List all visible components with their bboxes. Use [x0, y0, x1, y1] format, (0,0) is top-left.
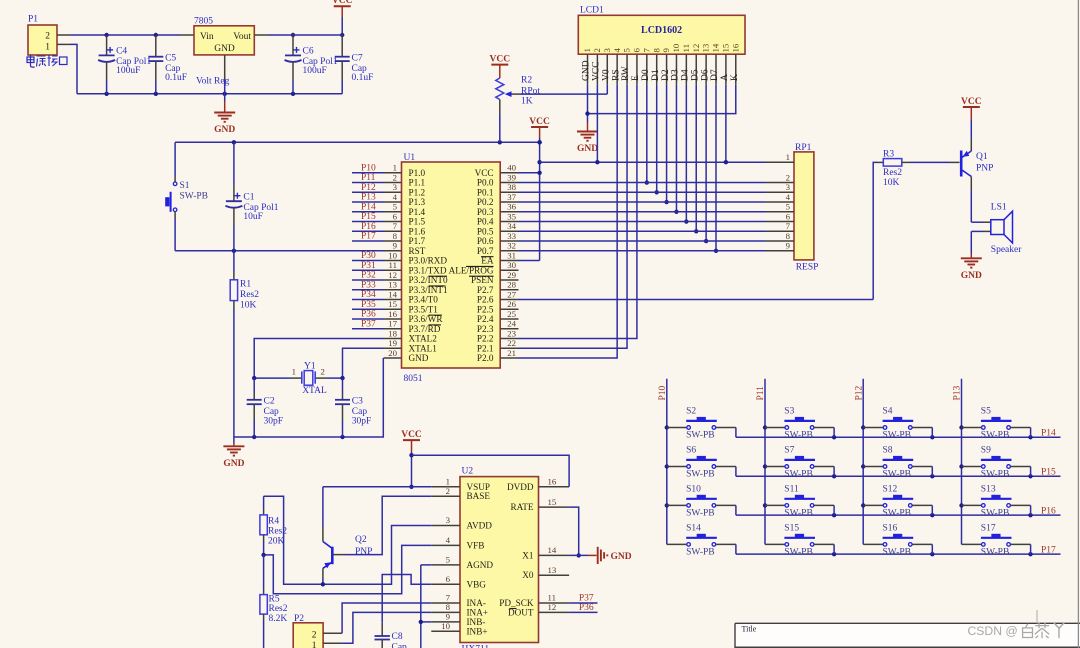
svg-text:Speaker: Speaker — [991, 245, 1022, 255]
svg-text:P30: P30 — [361, 251, 376, 261]
svg-text:1: 1 — [292, 366, 296, 376]
svg-text:18: 18 — [388, 328, 397, 338]
svg-text:9: 9 — [393, 241, 398, 251]
wire LCD VCC + A to VCC rail — [597, 84, 726, 162]
keypad column junction dots — [665, 425, 964, 507]
svg-text:P0.6: P0.6 — [477, 236, 494, 246]
net label P37 on PD_SCK — [569, 594, 597, 604]
wire VCC rail to RP1 pin1 — [540, 160, 766, 164]
wire Vout to C6/C7/VCC — [254, 34, 342, 36]
svg-text:10: 10 — [671, 43, 681, 52]
svg-text:P17: P17 — [1041, 545, 1056, 555]
svg-text:D0: D0 — [641, 69, 651, 81]
svg-text:SW-PB: SW-PB — [883, 547, 912, 557]
svg-text:X0: X0 — [522, 570, 534, 580]
svg-text:P33: P33 — [361, 280, 376, 290]
svg-text:P35: P35 — [361, 300, 376, 310]
U2 right pins stubs numbers names — [499, 477, 569, 618]
svg-text:13: 13 — [548, 565, 557, 575]
svg-text:27: 27 — [507, 289, 516, 299]
resistor network RP1 RESP — [794, 143, 818, 273]
wire VFB to R4/R5 junction — [261, 545, 431, 593]
svg-text:23: 23 — [507, 328, 516, 338]
svg-text:8051: 8051 — [404, 374, 423, 384]
svg-text:36: 36 — [507, 202, 516, 212]
capacitor C1 10uF — [225, 142, 278, 251]
svg-text:VCC: VCC — [529, 117, 550, 127]
switch S3 SW-PB — [765, 407, 834, 441]
svg-text:D4: D4 — [681, 69, 691, 81]
svg-text:P36: P36 — [361, 310, 376, 320]
svg-text:K: K — [730, 74, 740, 81]
svg-text:P1.3: P1.3 — [409, 197, 426, 207]
svg-text:17: 17 — [388, 319, 397, 329]
svg-text:INA+: INA+ — [467, 607, 489, 617]
svg-text:9: 9 — [786, 241, 791, 251]
capacitor C4 100uF — [98, 35, 151, 94]
svg-text:40: 40 — [507, 163, 516, 173]
svg-text:RST: RST — [409, 246, 426, 256]
crystal Y1 XTAL — [254, 362, 342, 396]
svg-text:8: 8 — [786, 231, 791, 241]
svg-text:P3.4/T0: P3.4/T0 — [409, 295, 439, 305]
svg-text:VCC: VCC — [401, 430, 422, 440]
capacitor C8 Cap — [375, 623, 408, 648]
switch S15 SW-PB — [765, 523, 834, 557]
svg-text:5: 5 — [393, 202, 398, 212]
svg-text:6: 6 — [632, 48, 642, 53]
svg-text:R4: R4 — [268, 517, 279, 527]
svg-text:10K: 10K — [240, 301, 257, 311]
ground symbol under crystal — [223, 437, 244, 469]
svg-text:2: 2 — [321, 366, 325, 376]
svg-text:RESP: RESP — [796, 263, 819, 273]
transistor Q1 PNP — [961, 120, 993, 222]
svg-text:24: 24 — [507, 319, 516, 329]
net labels P10-P13 keypad columns — [658, 385, 963, 400]
net labels P10-P17 on U1 pins 1-8 — [352, 163, 384, 241]
svg-text:4: 4 — [393, 192, 398, 202]
wire XTAL2 (pin18) to Y1 — [254, 339, 383, 379]
svg-text:SW-PB: SW-PB — [686, 547, 715, 557]
svg-text:Cap: Cap — [392, 643, 408, 648]
svg-text:S15: S15 — [784, 523, 799, 533]
svg-text:SW-PB: SW-PB — [784, 508, 813, 518]
svg-text:P11: P11 — [361, 173, 376, 183]
svg-text:2: 2 — [45, 32, 50, 42]
svg-text:SW-PB: SW-PB — [686, 431, 715, 441]
svg-text:14: 14 — [548, 545, 557, 555]
resistor R4 Res2 20K — [260, 496, 287, 555]
U1 left pin names — [409, 168, 448, 363]
svg-text:P36: P36 — [579, 603, 594, 613]
svg-text:P2: P2 — [294, 614, 304, 624]
voltage regulator 7805 — [194, 17, 254, 87]
svg-text:Vin: Vin — [200, 32, 214, 42]
svg-text:LCD1602: LCD1602 — [641, 25, 682, 36]
wires P0 bus to RP1 — [519, 183, 766, 251]
svg-text:6: 6 — [393, 211, 398, 221]
svg-text:Res2: Res2 — [269, 604, 288, 614]
svg-text:SW-PB: SW-PB — [981, 547, 1010, 557]
switch S16 SW-PB — [863, 523, 932, 557]
svg-text:0.1uF: 0.1uF — [165, 73, 187, 83]
svg-text:VFB: VFB — [467, 540, 485, 550]
svg-text:9: 9 — [661, 48, 671, 53]
svg-text:SW-PB: SW-PB — [981, 508, 1010, 518]
svg-text:P2.0: P2.0 — [477, 353, 494, 363]
svg-text:6: 6 — [786, 211, 791, 221]
svg-text:S4: S4 — [883, 407, 893, 417]
svg-text:8.2K: 8.2K — [269, 614, 288, 624]
svg-text:S1: S1 — [180, 181, 190, 191]
svg-text:SW-PB: SW-PB — [686, 508, 715, 518]
svg-text:P2.6: P2.6 — [477, 295, 494, 305]
svg-text:35: 35 — [507, 211, 516, 221]
svg-text:7: 7 — [786, 221, 791, 231]
switch S10 SW-PB — [667, 484, 736, 518]
svg-text:4: 4 — [446, 535, 451, 545]
svg-text:D1: D1 — [651, 69, 661, 81]
wire GND (pin20) down to crystal ground rail — [234, 358, 383, 437]
svg-text:12: 12 — [388, 270, 397, 280]
svg-text:C2: C2 — [264, 397, 275, 407]
svg-text:P0.0: P0.0 — [477, 178, 494, 188]
svg-text:P12: P12 — [361, 183, 376, 193]
svg-text:AGND: AGND — [467, 560, 494, 570]
svg-text:15: 15 — [548, 497, 557, 507]
power symbol VCC at R2 — [490, 54, 511, 78]
LCD1 pin labels GND..K — [582, 60, 740, 81]
wire VSUP / Q2 collector / VCC — [323, 487, 431, 542]
svg-text:13: 13 — [701, 43, 711, 52]
svg-text:8: 8 — [393, 231, 398, 241]
svg-text:P0.5: P0.5 — [477, 226, 494, 236]
svg-text:P1.1: P1.1 — [409, 178, 426, 188]
power symbol VCC top — [332, 0, 353, 35]
svg-text:10: 10 — [441, 621, 450, 631]
wire XTAL1 (pin19) to Y1 — [343, 348, 384, 378]
svg-text:38: 38 — [507, 182, 516, 192]
svg-text:8: 8 — [651, 48, 661, 53]
svg-text:P14: P14 — [1041, 429, 1056, 439]
label 电源接口 (power port) — [27, 55, 67, 67]
svg-text:39: 39 — [507, 172, 516, 182]
ground symbol under LCD — [577, 122, 598, 154]
junction dots crystal — [252, 376, 345, 439]
svg-text:P1.2: P1.2 — [409, 187, 426, 197]
svg-text:P0.3: P0.3 — [477, 207, 494, 217]
switch S2 SW-PB — [667, 407, 736, 441]
svg-text:11: 11 — [681, 44, 691, 52]
svg-text:P14: P14 — [361, 202, 376, 212]
svg-text:P32: P32 — [361, 271, 376, 281]
LCD1 pin stubs and numbers 1-16 — [582, 43, 740, 84]
svg-text:Title: Title — [742, 624, 757, 633]
wire keypad row net P14 — [736, 429, 1061, 440]
svg-text:XTAL2: XTAL2 — [409, 334, 438, 344]
svg-text:31: 31 — [507, 250, 516, 260]
LCD connector LCD1 LCD1602 — [578, 6, 745, 55]
capacitor C3 30pF — [335, 378, 371, 437]
svg-text:22: 22 — [507, 338, 516, 348]
svg-text:R5: R5 — [269, 595, 280, 605]
wire VCC/EA vertical — [519, 138, 542, 261]
wire R2 wiper to LCD V0 — [519, 84, 607, 94]
svg-text:P10: P10 — [658, 385, 668, 400]
switch S5 SW-PB — [962, 407, 1031, 441]
svg-text:V0: V0 — [601, 69, 611, 81]
svg-text:GND: GND — [577, 144, 598, 154]
svg-text:100uF: 100uF — [116, 66, 140, 76]
svg-text:INB+: INB+ — [467, 626, 488, 636]
svg-text:D2: D2 — [661, 69, 671, 81]
svg-text:25: 25 — [507, 309, 516, 319]
svg-text:2: 2 — [592, 48, 602, 52]
wire LCD GND + K net — [585, 84, 735, 122]
svg-text:21: 21 — [507, 348, 516, 358]
connector P1 — [28, 15, 70, 56]
capacitor C6 100uF — [285, 35, 338, 94]
wire LCD E to P2.2 — [519, 84, 637, 338]
svg-text:CSDN @: CSDN @ — [968, 624, 1018, 638]
svg-text:3: 3 — [446, 515, 451, 525]
capacitor C5 0.1uF — [148, 35, 187, 94]
svg-text:20K: 20K — [268, 537, 285, 547]
svg-text:PNP: PNP — [976, 164, 993, 174]
wire LCD RS to P2.0 — [519, 84, 618, 358]
svg-text:12: 12 — [548, 602, 557, 612]
svg-text:32: 32 — [507, 241, 516, 251]
svg-text:C4: C4 — [116, 47, 127, 57]
switch S6 SW-PB — [667, 446, 736, 480]
svg-text:1: 1 — [786, 152, 790, 162]
svg-text:0.1uF: 0.1uF — [352, 73, 374, 83]
switch S7 SW-PB — [765, 446, 834, 480]
svg-text:P15: P15 — [361, 212, 376, 222]
svg-text:16: 16 — [388, 309, 397, 319]
wire VCC rail (reset top) — [175, 140, 542, 144]
svg-text:19: 19 — [388, 338, 397, 348]
svg-text:P2.3: P2.3 — [477, 324, 494, 334]
svg-text:P1.0: P1.0 — [409, 168, 426, 178]
svg-text:10: 10 — [388, 250, 397, 260]
svg-text:P13: P13 — [361, 193, 376, 203]
transistor Q2 PNP — [323, 535, 373, 584]
svg-text:S3: S3 — [784, 407, 794, 417]
wire 7805 GND pin down — [224, 55, 226, 101]
capacitor C2 30pF — [247, 378, 283, 437]
svg-text:S17: S17 — [981, 523, 996, 533]
svg-text:SW-PB: SW-PB — [784, 547, 813, 557]
U2 left pins stubs numbers names — [431, 477, 493, 637]
svg-text:P13: P13 — [953, 385, 963, 400]
svg-text:VBG: VBG — [467, 579, 487, 589]
svg-text:C7: C7 — [352, 54, 363, 64]
svg-text:26: 26 — [507, 299, 516, 309]
svg-text:BASE: BASE — [467, 491, 491, 501]
svg-text:SW-PB: SW-PB — [883, 470, 912, 480]
svg-text:30pF: 30pF — [352, 416, 372, 426]
switch S14 SW-PB — [667, 523, 736, 557]
potentiometer R2 RPot 1K — [496, 76, 541, 143]
svg-text:P1.6: P1.6 — [409, 226, 426, 236]
svg-text:P0.2: P0.2 — [477, 197, 494, 207]
wire keypad row net P16 — [736, 506, 1061, 517]
net label P36 on DOUT — [569, 603, 597, 613]
svg-text:2: 2 — [393, 172, 397, 182]
svg-text:SW-PB: SW-PB — [883, 431, 912, 441]
switch S12 SW-PB — [863, 484, 932, 518]
svg-text:P16: P16 — [361, 222, 376, 232]
svg-text:RW: RW — [621, 66, 631, 81]
wire keypad row net P17 — [736, 545, 1061, 556]
svg-text:S11: S11 — [784, 484, 799, 494]
wire X1 to GND — [569, 554, 596, 556]
svg-text:GND: GND — [961, 271, 982, 281]
switch S8 SW-PB — [863, 446, 932, 480]
svg-text:A: A — [720, 74, 730, 81]
svg-text:P2.4: P2.4 — [477, 314, 494, 324]
svg-text:P34: P34 — [361, 290, 376, 300]
svg-text:3: 3 — [393, 182, 398, 192]
MCU U1 8051 — [402, 153, 501, 384]
svg-text:SW-PB: SW-PB — [784, 431, 813, 441]
svg-text:P0.7: P0.7 — [477, 246, 494, 256]
svg-text:16: 16 — [548, 477, 557, 487]
svg-text:7805: 7805 — [194, 17, 213, 27]
svg-text:P10: P10 — [361, 163, 376, 173]
svg-text:D6: D6 — [700, 69, 710, 81]
svg-text:LCD1: LCD1 — [580, 6, 604, 16]
resistor R5 Res2 8.2K — [260, 555, 288, 648]
ground symbol under 7805 — [214, 101, 235, 135]
svg-text:S6: S6 — [686, 446, 696, 456]
svg-text:P3.5/T1: P3.5/T1 — [409, 304, 439, 314]
svg-text:16: 16 — [730, 43, 740, 52]
svg-text:P0.4: P0.4 — [477, 217, 494, 227]
wire AGND / INB- — [419, 565, 432, 648]
wire RST rail — [175, 249, 383, 253]
svg-text:P2.5: P2.5 — [477, 304, 494, 314]
svg-text:GND: GND — [611, 552, 632, 562]
svg-text:D7: D7 — [710, 69, 720, 81]
svg-text:Q2: Q2 — [355, 535, 367, 545]
connector P2 — [293, 614, 323, 648]
IC U2 HX711 — [460, 467, 539, 648]
svg-text:XTAL: XTAL — [302, 386, 327, 396]
svg-text:LS1: LS1 — [991, 203, 1007, 213]
svg-text:S16: S16 — [883, 523, 898, 533]
svg-text:SW-PB: SW-PB — [883, 508, 912, 518]
svg-text:P3.1/TXD: P3.1/TXD — [409, 265, 447, 275]
wire P2.2 to INA- — [323, 603, 431, 633]
svg-text:5: 5 — [786, 202, 791, 212]
svg-text:7: 7 — [393, 221, 398, 231]
svg-text:P2.2: P2.2 — [477, 334, 494, 344]
svg-text:R3: R3 — [883, 150, 894, 160]
svg-text:P0.1: P0.1 — [477, 187, 494, 197]
svg-text:15: 15 — [388, 299, 397, 309]
svg-text:20: 20 — [388, 348, 397, 358]
svg-text:GND: GND — [214, 44, 235, 54]
svg-text:P31: P31 — [361, 261, 376, 271]
svg-text:RS: RS — [611, 69, 621, 81]
wire VCC to DVDD — [412, 455, 570, 487]
svg-text:S12: S12 — [883, 484, 898, 494]
svg-text:S5: S5 — [981, 407, 991, 417]
svg-text:S7: S7 — [784, 446, 794, 456]
svg-text:33: 33 — [507, 231, 516, 241]
wire RATE to X1 — [569, 507, 581, 558]
svg-text:P12: P12 — [854, 385, 864, 400]
svg-text:VCC: VCC — [592, 61, 602, 81]
svg-text:Vout: Vout — [233, 32, 251, 42]
svg-text:E: E — [631, 75, 641, 81]
svg-text:U2: U2 — [462, 467, 474, 477]
svg-text:SW-PB: SW-PB — [784, 470, 813, 480]
switch S1 SW-PB — [165, 142, 208, 251]
svg-text:PNP: PNP — [355, 547, 372, 557]
svg-text:2: 2 — [446, 486, 450, 496]
keypad column wires — [667, 379, 962, 545]
svg-text:RP1: RP1 — [795, 143, 812, 153]
capacitor C7 0.1uF — [335, 35, 374, 94]
wires LCD D0-D7 down to P0.0-P0.7 — [645, 84, 719, 253]
svg-text:SW-PB: SW-PB — [686, 470, 715, 480]
svg-text:GND: GND — [409, 353, 429, 363]
svg-text:2: 2 — [312, 630, 317, 640]
wire P1.2 to Vin rail — [70, 34, 194, 36]
svg-text:11: 11 — [389, 260, 397, 270]
wire R3 to Q1 base — [910, 161, 960, 163]
svg-text:Q1: Q1 — [976, 152, 988, 162]
ground symbol sideways at X1 — [598, 547, 632, 564]
svg-text:1: 1 — [312, 641, 317, 648]
svg-text:30: 30 — [507, 260, 516, 270]
svg-text:VCC: VCC — [332, 0, 353, 6]
svg-text:SW-PB: SW-PB — [981, 431, 1010, 441]
speaker LS1 — [971, 203, 1022, 256]
svg-text:XTAL1: XTAL1 — [409, 343, 438, 353]
power symbol VCC at U2 — [401, 430, 422, 489]
svg-text:Res2: Res2 — [240, 290, 259, 300]
svg-text:3: 3 — [786, 182, 791, 192]
watermark CSDN @白茶丫 — [968, 622, 1065, 638]
svg-text:5: 5 — [622, 48, 632, 53]
net labels P30-P37 on U1 pins 10-17 — [352, 251, 384, 329]
svg-text:VCC: VCC — [475, 168, 494, 178]
svg-text:7: 7 — [641, 48, 651, 53]
svg-text:D5: D5 — [690, 69, 700, 81]
svg-text:4: 4 — [786, 192, 791, 202]
svg-text:28: 28 — [507, 280, 516, 290]
wire keypad row net P15 — [736, 468, 1061, 479]
svg-text:P15: P15 — [1041, 468, 1056, 478]
U1 right pin names — [449, 168, 494, 363]
svg-text:3: 3 — [602, 48, 612, 53]
svg-text:AVDD: AVDD — [467, 521, 493, 531]
svg-text:2: 2 — [786, 172, 790, 182]
resistor R1 10K — [230, 251, 259, 437]
svg-text:1: 1 — [393, 163, 397, 173]
svg-text:29: 29 — [507, 270, 516, 280]
svg-text:S8: S8 — [883, 446, 893, 456]
svg-text:SW-PB: SW-PB — [981, 470, 1010, 480]
switch S17 SW-PB — [962, 523, 1031, 557]
svg-text:5: 5 — [446, 555, 451, 565]
svg-text:S9: S9 — [981, 446, 991, 456]
